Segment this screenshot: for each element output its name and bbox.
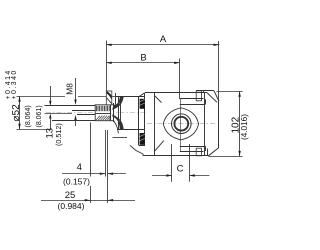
dim B right extension line: [179, 59, 181, 100]
dim13 line lower tail: [50, 119, 52, 130]
bell lower outer curve: [114, 121, 119, 134]
svg-text:25: 25: [65, 190, 76, 201]
port boss squircle: [163, 108, 198, 140]
dim25 right arrow: [108, 199, 113, 201]
shaft thread top line: [72, 110, 96, 112]
flange plate top chamfer: [139, 93, 144, 96]
svg-text:4: 4: [77, 162, 82, 173]
dia52 bottom arrow: [18, 124, 20, 129]
body small step rect top right: [196, 91, 201, 101]
dim13 upper arrow: [49, 101, 51, 106]
dim102 line: [239, 91, 241, 156]
flange hatch block top: [140, 99, 145, 109]
top pad lower line: [180, 104, 206, 106]
dim102 bottom arrow: [238, 151, 240, 156]
flange plate front face: [138, 96, 140, 145]
dim13 bottom extension line: [45, 113, 73, 115]
dimC right arrow: [189, 174, 194, 176]
body bottom-right chamfer: [209, 148, 219, 156]
top pad right face: [205, 99, 207, 104]
top tab edge: [196, 90, 214, 92]
inner chamfer diagonal top-left: [155, 96, 162, 103]
pilot rim face line 2: [120, 97, 122, 130]
top pad upper line: [180, 98, 204, 100]
dim25 left extension line: [90, 123, 92, 204]
bottom-right step face: [207, 149, 209, 156]
thread bore bottom line: [95, 113, 111, 115]
M8 leader lower: [75, 120, 77, 126]
washer right face: [113, 103, 115, 122]
dim25 left arrow: [85, 199, 90, 201]
dim102 top extension line: [217, 91, 243, 93]
washer left face: [110, 105, 112, 121]
body bottom edge: [143, 155, 209, 157]
dim4 right arrow: [108, 173, 113, 175]
dia52 top arrow: [18, 96, 20, 101]
port horizontal centerline: [147, 123, 216, 125]
dia52 top extension line seg2: [78, 96, 116, 98]
dim A line: [106, 44, 219, 46]
body right edge: [218, 101, 220, 148]
dim102 top arrow: [238, 91, 240, 96]
bell lower wedge: [113, 115, 123, 129]
dim4 right tail: [108, 173, 126, 175]
svg-text:(0.512): (0.512): [54, 123, 63, 146]
top tab inner face: [203, 91, 205, 93]
dim25 right tail: [108, 200, 135, 202]
key outline: [106, 91, 112, 105]
dim4 left tail: [62, 173, 100, 175]
dimC left extension line: [171, 144, 173, 182]
dimC right tail: [189, 175, 209, 177]
dim A left arrow: [106, 44, 111, 46]
M8 upper arrow: [74, 100, 76, 105]
bell upper wedge: [113, 97, 123, 110]
dim102 bottom extension line: [209, 156, 243, 158]
dim B right arrow: [174, 62, 179, 64]
body top edge: [145, 92, 208, 94]
thread dash band: [95, 106, 97, 111]
M8 lower arrow: [74, 115, 76, 120]
port inner circle: [174, 117, 188, 131]
dimC right extension line: [189, 144, 191, 182]
flange plate bottom edge: [139, 145, 145, 147]
svg-text:M8: M8: [64, 83, 74, 95]
dim A left extension line: [106, 41, 108, 92]
key hatch: [107, 91, 112, 99]
dia52 dim line: [19, 96, 21, 129]
svg-text:(8.064): (8.064): [25, 105, 32, 127]
svg-text:B: B: [140, 53, 146, 64]
pilot top edge: [116, 96, 145, 98]
flange plate rear face / body front: [144, 93, 146, 145]
dim13 lower arrow: [49, 113, 51, 118]
top tab right chamfer: [214, 91, 219, 101]
svg-text:(0.157): (0.157): [63, 177, 90, 187]
svg-text:(4.016): (4.016): [240, 114, 249, 140]
body small step rect bottom right: [196, 148, 201, 156]
dimC left arrow: [166, 174, 171, 176]
inner chamfer diagonal bottom-left: [155, 141, 164, 152]
svg-text:(8.061): (8.061): [36, 105, 43, 127]
shaft centerline: [46, 112, 146, 114]
dim B left arrow: [106, 62, 111, 64]
flange hatch block bottom: [140, 133, 145, 145]
dia52 bottom extension line: [17, 129, 51, 131]
port outer circle: [172, 114, 192, 134]
dim A right extension line: [218, 41, 220, 101]
M8 leader upper: [75, 78, 77, 100]
flange inner detail line: [113, 137, 128, 139]
bell upper left line: [115, 93, 117, 104]
thread hatch band: [96, 116, 100, 121]
pilot bottom edge: [117, 129, 145, 131]
dim13 top ext / shaft top edge: [45, 105, 97, 107]
svg-text:+0.340: +0.340: [11, 69, 18, 99]
shaft thread bottom line: [77, 114, 96, 116]
dim25 mid segment: [90, 200, 108, 202]
dim25 left tail: [41, 200, 90, 202]
bottom pad lower line: [180, 151, 204, 153]
front cover joint line: [154, 93, 156, 156]
body top-right chamfer: [207, 93, 217, 102]
shaft bottom edge: [52, 120, 114, 122]
dia52 top extension line seg1: [17, 96, 66, 98]
dim4 left extension line: [105, 130, 107, 177]
dim B line: [106, 62, 179, 64]
dim13 line upper tail: [50, 86, 52, 101]
rear cover joint line: [204, 93, 206, 156]
flange bottom profile: [130, 145, 143, 156]
shaft thread block outline: [95, 105, 113, 121]
svg-text:(0.984): (0.984): [58, 201, 85, 211]
svg-text:C: C: [177, 164, 184, 175]
dim4/25 shared right extension line: [107, 130, 109, 203]
dim A right arrow: [214, 44, 219, 46]
bottom pad right face: [205, 146, 207, 151]
dim4 tail join: [100, 173, 106, 175]
svg-text:⌀52: ⌀52: [11, 104, 22, 122]
bottom pad upper line: [180, 146, 206, 148]
dim4 left arrow: [100, 173, 105, 175]
svg-text:A: A: [160, 34, 167, 45]
port vertical centerline: [180, 99, 182, 152]
pilot rim face line 1: [118, 97, 120, 130]
dimC left tail: [152, 175, 172, 177]
